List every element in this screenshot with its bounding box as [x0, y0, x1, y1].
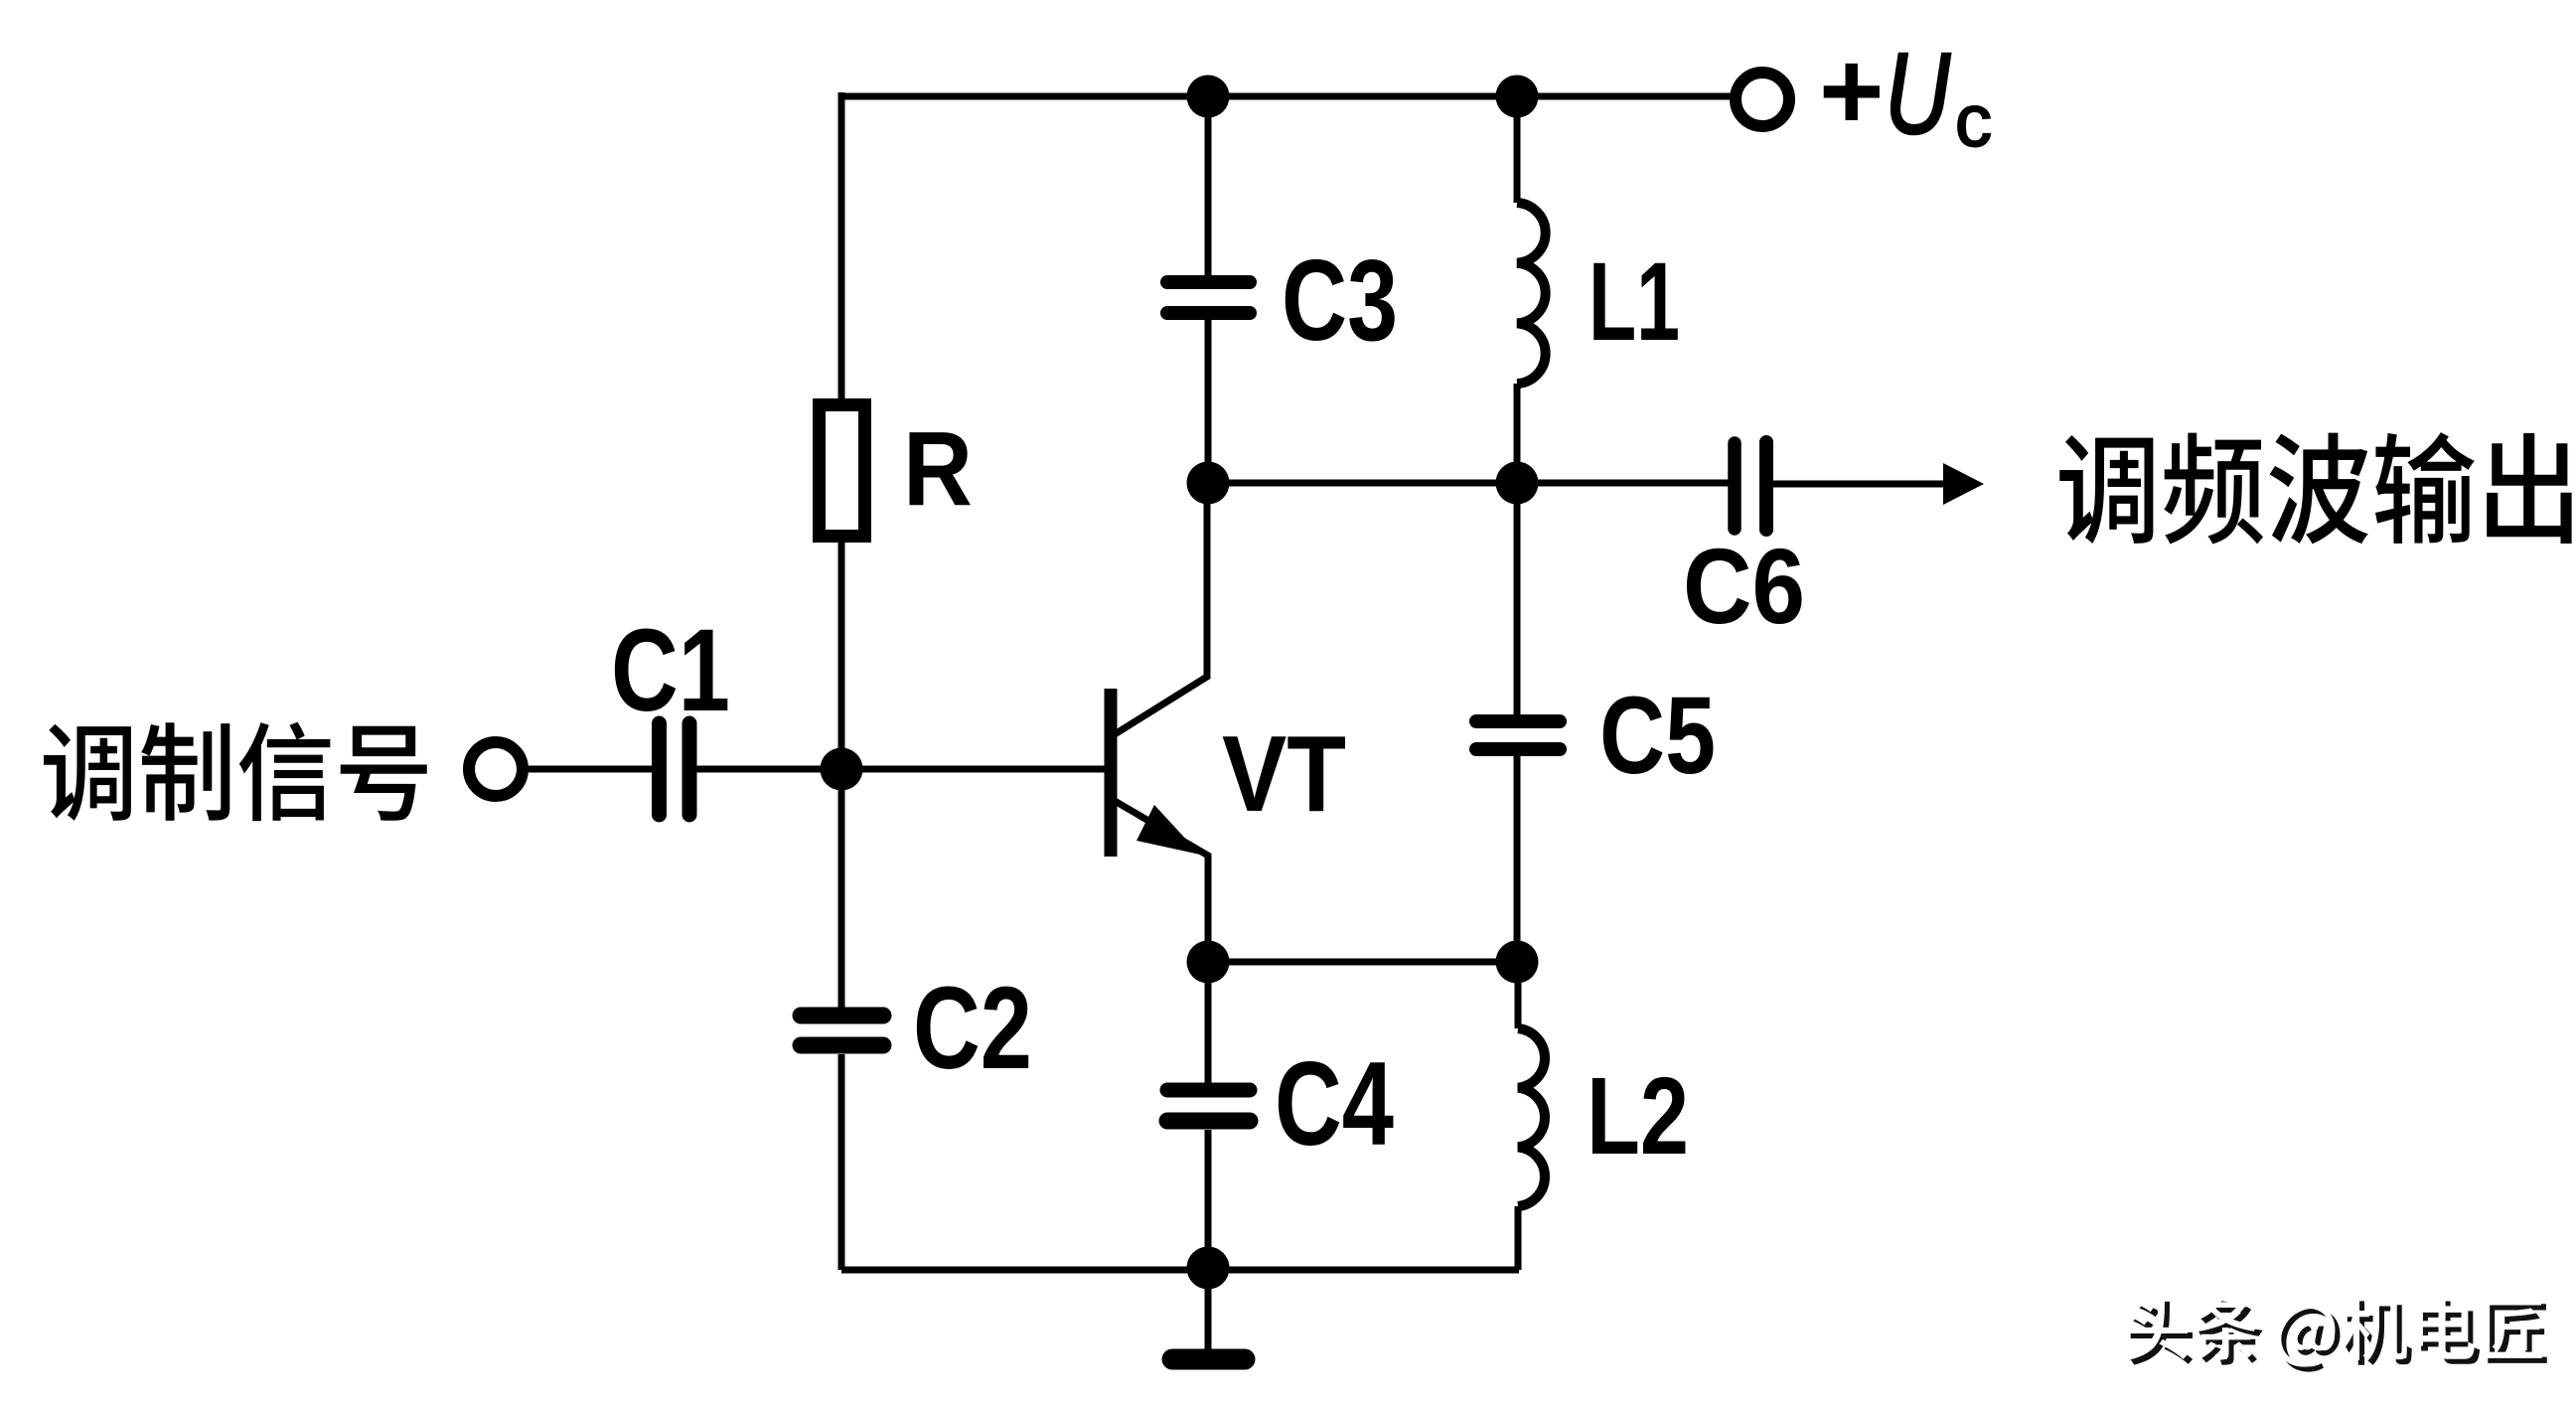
svg-text:C5: C5	[1599, 675, 1716, 797]
svg-text:L1: L1	[1589, 239, 1680, 364]
svg-text:VT: VT	[1222, 713, 1346, 835]
svg-text:C6: C6	[1683, 526, 1805, 646]
svg-text:R: R	[903, 410, 973, 528]
svg-text:U: U	[1885, 29, 1951, 158]
svg-text:L2: L2	[1587, 1055, 1689, 1177]
svg-text:C1: C1	[611, 605, 730, 736]
svg-text:+: +	[1819, 29, 1884, 153]
svg-text:c: c	[1955, 79, 1992, 162]
svg-text:C2: C2	[913, 963, 1032, 1094]
svg-text:C3: C3	[1282, 235, 1398, 365]
svg-text:C4: C4	[1275, 1037, 1394, 1171]
